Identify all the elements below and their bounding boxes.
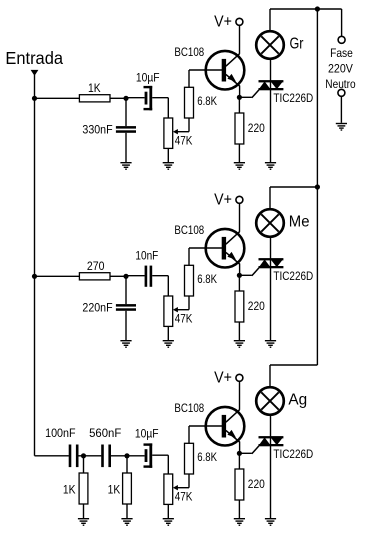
ground Neutro xyxy=(336,124,347,131)
label TIC226D stage2 xyxy=(273,269,313,283)
capacitor 100nF xyxy=(69,445,79,468)
triac TIC226D stage1 xyxy=(259,80,284,90)
svg-text:Entrada: Entrada xyxy=(5,48,63,68)
wire top rail to fase terminal xyxy=(317,9,341,36)
svg-text:220: 220 xyxy=(248,299,265,313)
wire base stage1 xyxy=(189,69,222,71)
wire base stage3 xyxy=(189,425,222,427)
node emitter junction stage1 xyxy=(237,95,242,100)
ground 220nF xyxy=(120,341,131,348)
transistor Q BC108 stage2 xyxy=(206,229,245,268)
wiper arrow 47K stage1 xyxy=(173,129,178,134)
label lamp Gr xyxy=(290,36,304,53)
lamp stage1 xyxy=(256,31,284,59)
svg-text:220: 220 xyxy=(248,121,265,135)
wire 6.8K to wiper stage2 xyxy=(177,296,190,310)
wire gate stage1 xyxy=(239,90,259,98)
wire triac vertical stage3 xyxy=(270,415,272,518)
svg-text:47K: 47K xyxy=(175,490,193,504)
wire base to 6.8K stage2 xyxy=(188,248,190,265)
label BC108 stage2 xyxy=(174,223,204,237)
label 10uF stage1 xyxy=(136,71,160,85)
wire input arrow to bus node xyxy=(34,75,36,98)
capacitor 560nF xyxy=(101,445,111,468)
resistor 1K b stage3 xyxy=(123,473,132,504)
svg-text:V+: V+ xyxy=(214,13,232,30)
potentiometer 47K stage1 xyxy=(164,118,173,148)
svg-text:47K: 47K xyxy=(175,312,193,326)
wire 270 to node xyxy=(110,275,126,277)
wire Neutro to ground xyxy=(340,96,342,123)
wire top rail to fase bus stage1 xyxy=(270,8,317,10)
label 10nF xyxy=(135,249,158,263)
label TIC226D stage1 xyxy=(273,91,313,105)
label 1K stage1 xyxy=(88,81,101,95)
svg-text:TIC226D: TIC226D xyxy=(273,269,313,283)
wire V+ to collector stage1 xyxy=(239,25,241,54)
svg-text:10µF: 10µF xyxy=(136,71,160,85)
ground 220 stage1 xyxy=(234,163,245,170)
svg-text:Ag: Ag xyxy=(288,392,307,409)
label 1K a stage3 xyxy=(63,483,76,497)
label 220nF xyxy=(82,301,113,315)
wire 1K to node xyxy=(110,97,126,99)
ground 1K b stage3 xyxy=(121,519,132,526)
label 100nF xyxy=(45,426,76,440)
terminal V+ (stage 2) stage2 xyxy=(236,196,243,203)
node fase junction stage1 xyxy=(315,6,320,11)
wire lamp to top rail stage1 xyxy=(269,9,271,31)
wire node1 to 1K a xyxy=(83,456,85,473)
terminal V+ (stage 3) stage3 xyxy=(236,374,243,381)
label 220V xyxy=(328,61,354,75)
ground pot stage1 xyxy=(163,163,174,170)
label Entrada (input) xyxy=(5,48,63,68)
wire lamp to top rail stage2 xyxy=(269,187,271,209)
ground pot stage2 xyxy=(163,341,174,348)
label 6.8K stage1 xyxy=(197,94,217,108)
svg-text:100nF: 100nF xyxy=(45,426,76,440)
label Neutro xyxy=(325,77,355,91)
label 6.8K stage3 xyxy=(197,450,217,464)
wiper arrow 47K stage2 xyxy=(173,307,178,312)
node input junction stage1 xyxy=(32,96,37,101)
wire gate stage2 xyxy=(239,268,259,276)
lamp stage2 xyxy=(256,209,284,237)
wire base to 6.8K stage3 xyxy=(188,426,190,443)
wire pot to ground stage2 xyxy=(167,326,169,340)
svg-text:6.8K: 6.8K xyxy=(197,94,217,108)
wire 6.8K to wiper stage1 xyxy=(177,118,190,132)
node A stage2 xyxy=(123,274,128,279)
wire fase bus vertical xyxy=(316,9,318,365)
wire V+ to collector stage3 xyxy=(239,381,241,410)
capacitor 10uF stage1 xyxy=(144,86,153,110)
ground triac stage1 xyxy=(265,163,276,170)
wire emitter to node stage2 xyxy=(239,264,241,276)
label Fase xyxy=(330,46,353,60)
ground pot stage3 xyxy=(163,519,174,526)
wire top rail to fase bus stage2 xyxy=(270,186,317,188)
svg-text:V+: V+ xyxy=(214,369,232,386)
svg-text:220: 220 xyxy=(248,477,265,491)
ground triac stage2 xyxy=(265,341,276,348)
wire node to 220 stage3 xyxy=(238,453,240,469)
ground 330nF xyxy=(120,163,131,170)
svg-text:TIC226D: TIC226D xyxy=(273,447,313,461)
label 220 stage3 xyxy=(248,477,265,491)
label 47K stage3 xyxy=(175,490,193,504)
label BC108 stage3 xyxy=(174,401,204,415)
svg-text:Gr: Gr xyxy=(290,36,304,53)
wire input bus vertical xyxy=(34,98,36,456)
svg-text:Me: Me xyxy=(289,214,310,231)
wire cap out to pot stage1 xyxy=(152,98,168,118)
wire 1K a to ground xyxy=(83,504,85,518)
node A stage1 xyxy=(123,96,128,101)
label TIC226D stage3 xyxy=(273,447,313,461)
wire 560nF to node2 xyxy=(111,455,145,457)
resistor 270 stage2 xyxy=(79,273,110,280)
svg-text:1K: 1K xyxy=(63,483,76,497)
wire triac vertical stage2 xyxy=(270,237,272,340)
capacitor 10nF xyxy=(145,266,153,287)
svg-text:6.8K: 6.8K xyxy=(197,450,217,464)
svg-text:10nF: 10nF xyxy=(135,249,158,263)
wire emitter to node stage3 xyxy=(239,442,241,454)
svg-text:Fase: Fase xyxy=(330,46,353,60)
input terminal arrow xyxy=(31,70,39,76)
resistor 220 stage2 xyxy=(235,291,244,322)
svg-text:220nF: 220nF xyxy=(82,301,113,315)
wire 330nF to ground xyxy=(125,133,127,162)
ground 220 stage2 xyxy=(234,341,245,348)
wire gate stage3 xyxy=(239,446,259,454)
ground triac stage3 xyxy=(265,519,276,526)
wire cap out to pot stage3 xyxy=(152,455,168,474)
label BC108 stage1 xyxy=(174,45,204,59)
node fase junction stage2 xyxy=(315,184,320,189)
wire base to 6.8K stage1 xyxy=(188,70,190,87)
node emitter junction stage2 xyxy=(237,273,242,278)
svg-text:47K: 47K xyxy=(175,134,193,148)
label V+ supply (stage 3) stage3 xyxy=(214,369,232,386)
capacitor 330nF xyxy=(116,126,136,133)
svg-text:BC108: BC108 xyxy=(174,401,204,415)
transistor Q BC108 stage3 xyxy=(206,407,245,446)
wire input to 1K xyxy=(35,97,80,99)
label 220 stage1 xyxy=(248,121,265,135)
resistor 220 stage1 xyxy=(235,113,244,144)
label 270 stage2 xyxy=(87,259,105,273)
svg-text:6.8K: 6.8K xyxy=(197,272,217,286)
ground 1K a stage3 xyxy=(78,519,89,526)
terminal Fase xyxy=(338,36,345,43)
wire node2 to 1K b xyxy=(126,456,128,473)
capacitor 220nF xyxy=(116,304,136,311)
wire input bus corner to 100nF xyxy=(35,455,69,457)
wire emitter to node stage1 xyxy=(239,86,241,98)
transistor Q BC108 stage1 xyxy=(206,51,245,90)
wire 220 to ground stage1 xyxy=(238,144,240,162)
wire input to 270 xyxy=(35,275,80,277)
wire pot to ground stage3 xyxy=(167,504,169,518)
svg-text:V+: V+ xyxy=(214,191,232,208)
wire node to 220 stage2 xyxy=(238,275,240,291)
label 47K stage2 xyxy=(175,312,193,326)
label 220 stage2 xyxy=(248,299,265,313)
label 6.8K stage2 xyxy=(197,272,217,286)
wire 1K b to ground xyxy=(126,504,128,518)
wire top rail to fase bus stage3 xyxy=(270,364,317,366)
resistor 6.8K stage3 xyxy=(185,443,194,474)
wire node to 220nF xyxy=(125,276,127,304)
ground 220 stage3 xyxy=(234,519,245,526)
wiper arrow 47K stage3 xyxy=(173,485,178,490)
label 560nF xyxy=(89,426,122,440)
wire 220 to ground stage2 xyxy=(238,322,240,340)
wire lamp to top rail stage3 xyxy=(269,365,271,387)
label 330nF xyxy=(82,123,113,137)
node B1 stage3 xyxy=(81,453,86,458)
label V+ supply (stage 1) stage1 xyxy=(214,13,232,30)
potentiometer 47K stage2 xyxy=(164,296,173,326)
resistor 1K a stage3 xyxy=(79,473,88,504)
label V+ supply (stage 2) stage2 xyxy=(214,191,232,208)
svg-text:270: 270 xyxy=(87,259,105,273)
wire node to 10uF xyxy=(126,97,145,99)
wire 6.8K to wiper stage3 xyxy=(177,474,190,488)
triac TIC226D stage2 xyxy=(259,258,284,268)
node B2 stage3 xyxy=(124,453,129,458)
wire node to 10nF xyxy=(126,275,145,277)
lamp stage3 xyxy=(256,387,284,415)
label 10uF stage3 xyxy=(135,427,159,441)
wire V+ to collector stage2 xyxy=(239,203,241,232)
svg-text:TIC226D: TIC226D xyxy=(273,91,313,105)
wire triac vertical stage1 xyxy=(270,59,272,162)
svg-text:1K: 1K xyxy=(108,483,121,497)
triac TIC226D stage3 xyxy=(259,436,284,446)
svg-text:220V: 220V xyxy=(328,61,354,75)
wire node to 220 stage1 xyxy=(238,97,240,113)
label 47K stage1 xyxy=(175,134,193,148)
wire base stage2 xyxy=(189,247,222,249)
wire cap out to pot stage2 xyxy=(152,276,168,296)
node input junction stage2 xyxy=(32,274,37,279)
resistor 220 stage3 xyxy=(235,469,244,500)
label lamp Me xyxy=(289,214,310,231)
wire pot to ground stage1 xyxy=(167,148,169,162)
resistor 6.8K stage1 xyxy=(185,87,194,118)
resistor 1K stage1 xyxy=(79,95,110,102)
svg-text:560nF: 560nF xyxy=(89,426,122,440)
terminal Neutro xyxy=(338,89,345,96)
resistor 6.8K stage2 xyxy=(185,265,194,296)
svg-text:1K: 1K xyxy=(88,81,101,95)
wire node to 330nF xyxy=(125,98,127,126)
terminal V+ (stage 1) stage1 xyxy=(236,18,243,25)
wire 220 to ground stage3 xyxy=(238,500,240,518)
svg-text:330nF: 330nF xyxy=(82,123,113,137)
wire 100nF to node1 xyxy=(79,455,102,457)
node emitter junction stage3 xyxy=(237,451,242,456)
potentiometer 47K stage3 xyxy=(164,474,173,504)
capacitor 10uF stage3 xyxy=(144,443,153,467)
label lamp Ag xyxy=(288,392,307,409)
wire 220nF to ground xyxy=(125,311,127,340)
svg-text:BC108: BC108 xyxy=(174,45,204,59)
label 1K b stage3 xyxy=(108,483,121,497)
svg-text:10µF: 10µF xyxy=(135,427,159,441)
svg-text:BC108: BC108 xyxy=(174,223,204,237)
